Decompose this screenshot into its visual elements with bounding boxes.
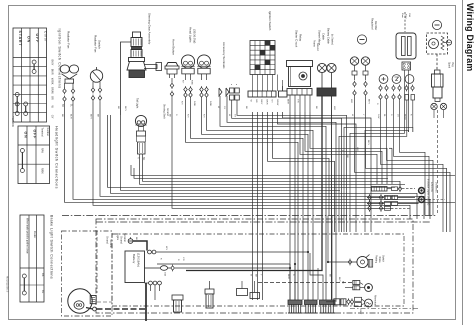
svg-text:Spark: Spark [448,62,451,69]
circled number 1 - ignition coil [432,20,441,29]
svg-text:Brake: Brake [378,257,381,264]
comb connector 3 [320,300,336,305]
svg-text:BR: BR [255,100,257,103]
terminal connectors below 5 [354,75,356,80]
svg-text:BK/Y: BK/Y [367,140,369,146]
svg-text:W/Y: W/Y [165,246,167,251]
svg-text:Plug: Plug [451,62,453,67]
wires from terminals 5 heading down then right [355,118,451,232]
svg-text:Horn Button: Horn Button [172,39,176,55]
svg-text:R/Y: R/Y [181,101,183,105]
indicator light row reverse [387,188,391,190]
svg-text:Alternator: Alternator [374,295,377,306]
spark plug [435,70,441,74]
svg-text:Radiator Fan: Radiator Fan [94,35,98,53]
svg-text:BK/R: BK/R [265,100,267,106]
svg-text:Fuse: Fuse [405,14,407,20]
ground strap thick wire [133,241,147,251]
svg-text:Ground: Ground [106,236,109,244]
svg-text:BK/Y: BK/Y [90,114,92,120]
extra harness verticals into engine box [331,216,333,301]
svg-text:BK/R: BK/R [287,274,289,280]
svg-text:12V3.4W: 12V3.4W [430,182,433,193]
chassis ground dash-dot line upper [62,215,437,217]
svg-text:(35/36.5W): (35/36.5W) [193,29,197,43]
verticals feeding bottom-right cluster [327,216,329,263]
svg-text:BK/Y: BK/Y [359,310,361,315]
horn button connectors [170,83,174,87]
svg-text:Terminal: Terminal [41,128,44,138]
barrel side lever arm [144,65,157,69]
wire bundle from starter relay [289,112,291,300]
svg-text:When brake pedal is pushed dow: When brake pedal is pushed down [25,218,28,254]
starter motor [68,289,92,313]
svg-text:Accessory Terminals: Accessory Terminals [222,42,226,69]
spare terminal squares [231,84,233,86]
battery cable run (thick) [186,112,322,271]
svg-text:GY: GY [51,115,55,119]
neutral switch lead [310,253,323,300]
alternator circle and rect pair [334,299,340,305]
indicator lights striped block [372,187,388,192]
svg-text:Y/R: Y/R [182,257,184,261]
svg-text:(12V18Ah): (12V18Ah) [137,253,141,267]
svg-text:BR: BR [255,274,257,277]
svg-text:R/BK: R/BK [191,80,193,85]
component: Head Light right [197,55,210,68]
coil terminal bolt [446,40,451,45]
svg-text:G: G [175,114,177,116]
svg-text:Rectifier: Rectifier [374,21,377,30]
wire: horn lead down-right [172,112,393,208]
main earth thick cable [145,283,147,321]
ignition table contact circles ON [24,102,28,106]
svg-text:Radiator Fan: Radiator Fan [67,31,71,49]
wires down to combs [289,264,291,300]
svg-text:BR/W: BR/W [276,100,278,107]
svg-text:W/R: W/R [333,106,335,111]
svg-text:R: R [137,157,140,159]
svg-text:G: G [390,114,392,116]
ignition table contact circles OFF [32,60,36,64]
svg-text:W/BK: W/BK [51,78,55,85]
svg-text:G: G [292,274,294,276]
svg-text:Terminal: Terminal [109,239,112,248]
svg-text:BK/R: BK/R [51,69,55,75]
svg-text:Engine: Engine [116,233,118,241]
starter motor terminal and thick dashed cable [86,308,93,310]
svg-text:Cable: Cable [321,33,325,40]
svg-text:Headlight Switch Connections: Headlight Switch Connections [55,126,59,189]
svg-text:Color: Color [43,31,47,42]
svg-text:Wiring Diagram: Wiring Diagram [465,3,474,71]
component: Radiator Fan motor symbol [60,65,69,73]
fuse holder connector [402,62,411,70]
svg-text:BK/R: BK/R [287,99,289,105]
svg-text:Number: Number [46,128,49,137]
right side verticals dropping into frame box [436,219,438,230]
svg-text:30A: 30A [408,13,411,17]
fan switch wires and connectors [92,82,94,87]
frame ground grommets [431,103,437,109]
svg-text:Indicator Lights: Indicator Lights [427,179,430,196]
svg-text:BR: BR [117,106,119,109]
svg-text:Y/R: Y/R [297,99,299,103]
component: Radiator Fan Switch symbol [90,70,102,82]
filled contacts in block [265,41,270,46]
svg-text:Switch: Switch [381,255,384,263]
battery 12V18Ah [125,251,145,283]
wires from circled 2 and fuse heading left then down [339,132,407,232]
battery top terminal circles [148,250,152,254]
svg-text:BK/Y: BK/Y [260,100,262,106]
indicator light row 2 [367,197,384,199]
svg-text:Ground: Ground [316,43,319,52]
svg-text:Frame: Frame [313,40,316,48]
table: Brake Light Switch Connections [20,215,44,302]
radiator fan wires and connectors [64,83,66,88]
CDI unit connectors [237,289,248,296]
coil lead dash-dot down [437,110,439,215]
svg-text:GY: GY [234,114,236,118]
svg-text:BK/W: BK/W [404,114,406,121]
svg-text:BL/R: BL/R [70,114,72,119]
circled number 5 [357,35,366,44]
wire runs returning left across page [131,165,455,175]
headlight right connectors [200,87,204,91]
dashed box around starter motor [62,231,113,316]
component: main fuse holder [404,12,406,32]
svg-text:ON: ON [23,132,27,139]
wire bundle: radiator fan down and right [65,108,456,202]
wire: steering barrel lead down-right [121,115,341,190]
svg-text:BR/W: BR/W [51,87,55,94]
ignition table contact circles START [15,93,19,97]
wire bundle from ignition switch block [252,112,254,300]
circled number 2 connector group [405,75,414,84]
svg-text:R/BK: R/BK [41,168,44,174]
circled number 4 connector group [379,75,388,84]
svg-text:Steering Shaft: Steering Shaft [163,104,166,119]
comb connector 2 [305,300,318,305]
svg-text:GY: GY [223,106,225,110]
starter relay cylinder [172,295,183,300]
harness connector stub [205,289,214,294]
headlight table contact circles [20,149,24,153]
svg-text:Ignition Switch Connections: Ignition Switch Connections [58,29,62,89]
svg-text:Battery Cable: Battery Cable [327,28,331,44]
svg-text:BK/Y: BK/Y [338,277,340,282]
svg-text:R/BK: R/BK [209,101,211,107]
wires from connectors 4 3 2 down then right [381,132,444,232]
svg-text:Color: Color [33,231,37,238]
svg-text:BK: BK [61,104,63,108]
svg-text:R/Y: R/Y [187,114,189,118]
table: Ignition Switch Connections [13,28,47,122]
svg-text:Switch: Switch [98,40,102,49]
svg-text:BK/Y: BK/Y [124,106,126,112]
svg-text:MS2011095 S: MS2011095 S [6,276,10,293]
svg-text:GY: GY [271,100,273,104]
connector cluster under battery [149,281,153,285]
svg-text:Steering Gear Assembly: Steering Gear Assembly [148,13,152,45]
svg-text:Regulator/: Regulator/ [371,18,374,30]
wire on Y/R circuit [157,263,290,265]
svg-text:ON: ON [27,36,31,43]
svg-text:R/Y: R/Y [203,114,205,118]
frame dashed box around engine harness [96,219,413,313]
svg-text:Ignition Switch: Ignition Switch [268,11,272,31]
svg-text:BR: BR [51,96,55,100]
svg-text:(to Starter): (to Starter) [330,34,333,45]
svg-text:Battery: Battery [132,254,136,264]
reverse lamp [419,188,425,194]
headlight left connectors [184,87,188,91]
title sidebar divider [462,0,464,325]
svg-text:Brake Light Switch Connections: Brake Light Switch Connections [50,215,54,279]
wire bundle: fan switch down and right [93,108,410,219]
svg-text:START: START [18,31,22,47]
svg-text:(Neutral): (Neutral) [427,196,430,206]
neutral lamp [419,197,425,203]
svg-text:Starter Circuit: Starter Circuit [295,30,299,47]
svg-text:OFF: OFF [35,34,39,44]
bottom dash labels [350,308,420,310]
comb connector 1 [288,300,302,305]
indicator light row 4 [367,207,384,209]
svg-text:BK/Y: BK/Y [51,60,55,66]
block to connector fan-in [252,75,254,81]
svg-text:* WP1099: * WP1099 [11,116,14,127]
svg-text:R/BK: R/BK [193,101,195,107]
indicator light row 3 [367,203,384,205]
chassis ground dash-dot line lower [96,221,430,223]
svg-text:30A: 30A [164,272,167,276]
svg-text:W/R: W/R [350,99,352,104]
svg-text:Tail Light: Tail Light [136,98,140,109]
svg-text:BK: BK [41,273,45,277]
svg-text:BK/Y: BK/Y [368,99,370,105]
svg-text:G: G [376,103,378,105]
svg-text:Main: Main [401,13,403,19]
brake table contact circles [22,274,26,278]
circled number 3 connector group [392,75,401,84]
parking brake switch [357,256,368,267]
ignition coil box [427,33,448,54]
inner dashed box [112,234,404,306]
regulator bolt terminals [350,57,358,65]
tail light wires [140,154,406,184]
svg-text:(Reverse): (Reverse) [435,182,438,193]
svg-text:Head Lights: Head Lights [189,27,193,43]
svg-text:Parking: Parking [375,255,378,264]
barrel dark base [129,70,145,78]
svg-text:W/R: W/R [356,147,358,152]
wire W/Y to right [156,251,308,253]
svg-text:Relay: Relay [299,34,303,42]
battery lead with 30A fuse [145,267,161,269]
svg-text:Terminal: Terminal [123,233,126,242]
svg-text:BR: BR [97,114,99,117]
component: Steering Gear Assembly (ignition switch barrel) [133,32,141,38]
svg-text:BL: BL [41,290,45,294]
coil high tension lead to spark plug [436,54,438,70]
table: Headlight Switch Connections [18,126,50,184]
parking switch lead [328,261,357,263]
svg-text:LG: LG [397,114,399,117]
svg-text:R/W: R/W [41,148,44,154]
wire from barrel going down [121,42,132,115]
svg-text:OFF: OFF [32,130,36,140]
